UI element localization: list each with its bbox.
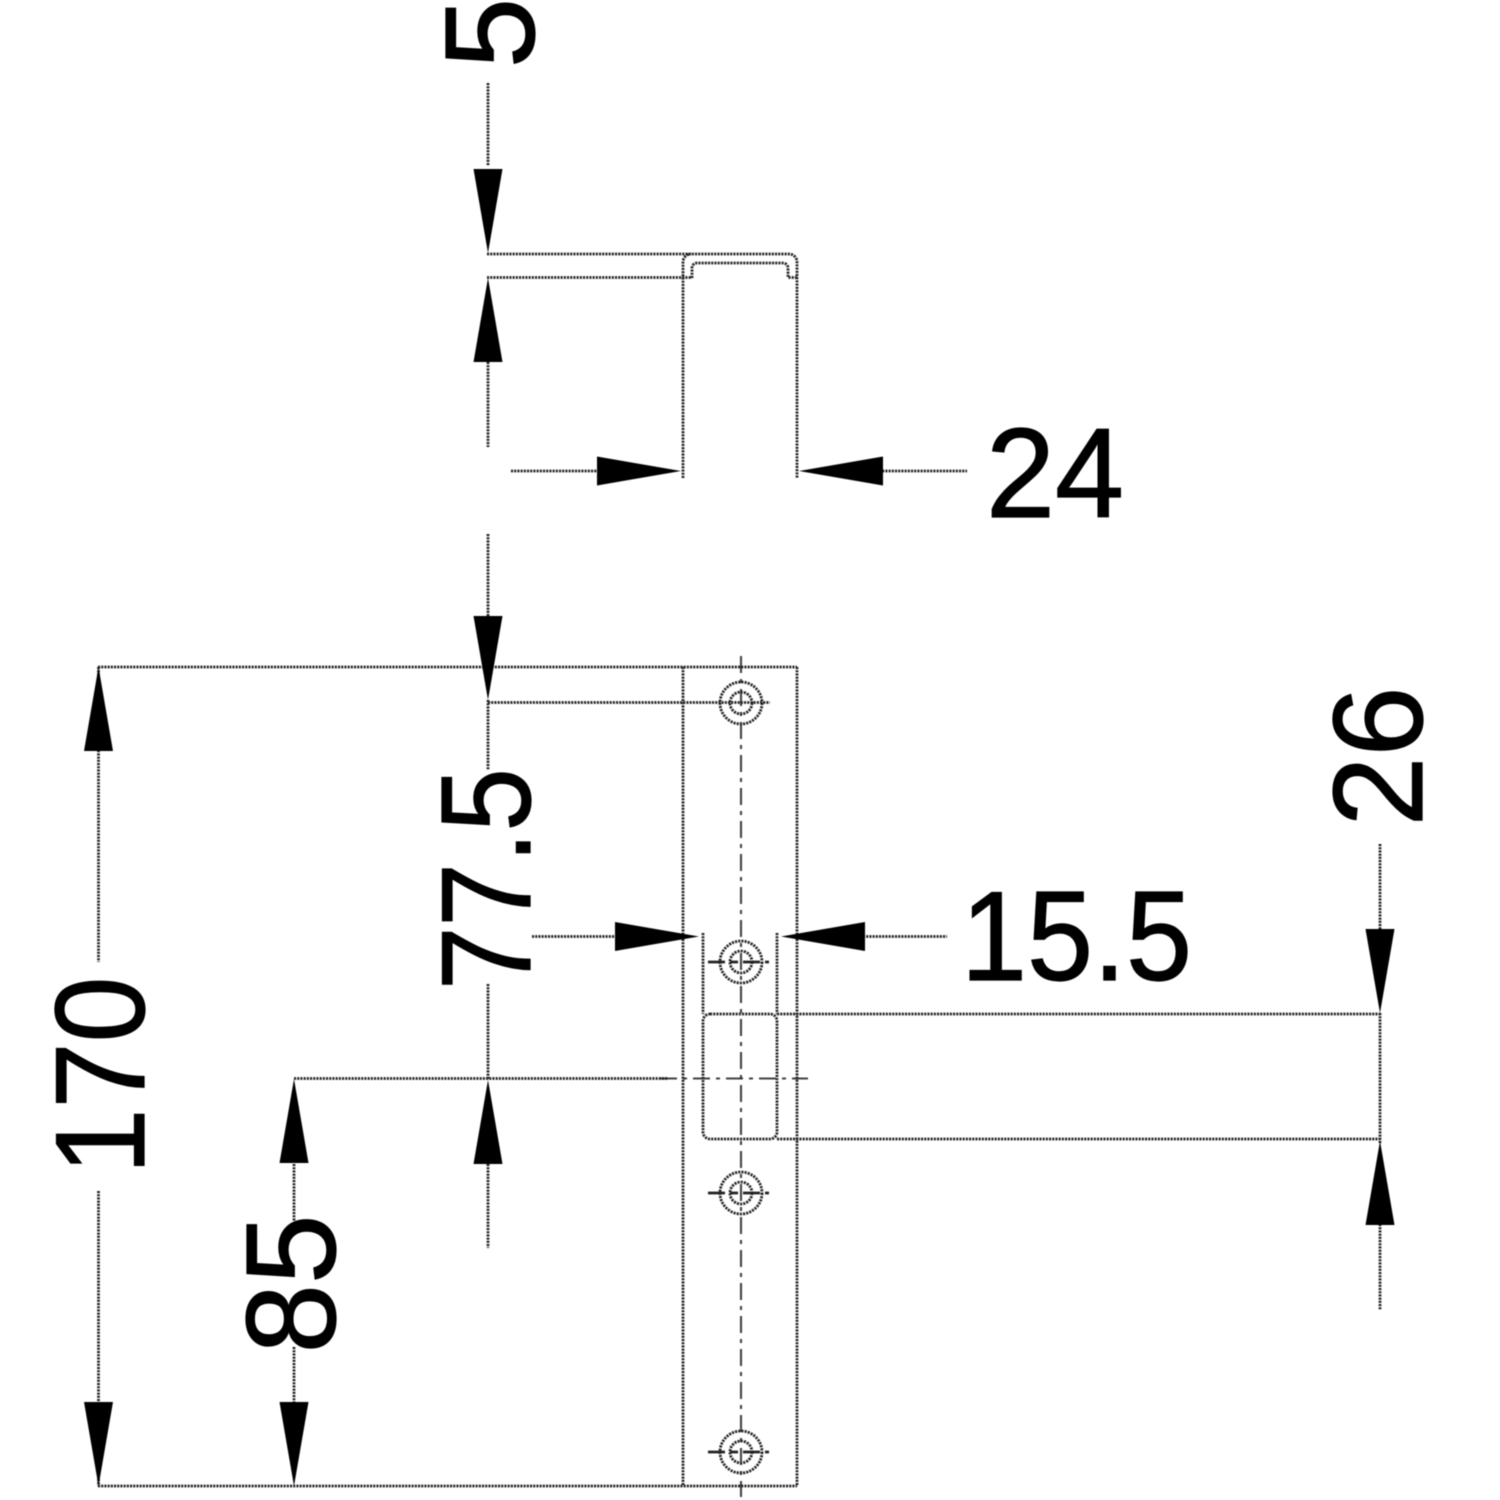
arm bottom line <box>777 1138 1380 1141</box>
15.5 extension lines <box>703 933 777 1014</box>
plate right edge <box>796 667 799 1486</box>
plate left edge <box>682 667 685 1486</box>
hole1 outer circle <box>720 682 762 724</box>
svg-text:85: 85 <box>220 1215 362 1354</box>
hole3 inner circle <box>730 1182 752 1204</box>
top profile view outer outline <box>487 254 797 478</box>
hole2 tick <box>708 961 769 964</box>
24 dimension line <box>511 470 967 473</box>
arrowheads <box>474 169 503 253</box>
hole4 inner circle <box>730 1441 752 1463</box>
arm top line <box>777 1013 1380 1016</box>
svg-text:77.5: 77.5 <box>415 768 557 990</box>
plate top edge + extension <box>98 666 797 669</box>
svg-text:26: 26 <box>1307 687 1449 827</box>
85 / 77.5 extension line at arm centerline <box>294 1077 668 1080</box>
hole2 inner circle <box>730 951 752 973</box>
hole4 outer circle <box>720 1431 762 1473</box>
hole4 tick <box>708 1451 769 1454</box>
hole2 outer circle <box>720 941 762 983</box>
svg-text:15.5: 15.5 <box>961 865 1192 1007</box>
hole3 tick <box>708 1192 769 1195</box>
hole1 inner circle <box>730 692 752 714</box>
26 dimension line + arm end edge <box>1379 844 1382 1310</box>
vertical centerline through holes <box>740 656 742 1497</box>
170 dimension line <box>97 667 100 1486</box>
svg-text:5: 5 <box>419 0 561 68</box>
top profile view inner lip <box>692 263 797 278</box>
15.5 dimension line <box>532 935 947 938</box>
extension line for 5 (lower) <box>487 276 692 279</box>
svg-text:24: 24 <box>986 402 1124 544</box>
arm horizontal centerline <box>660 1077 808 1079</box>
svg-text:170: 170 <box>29 977 171 1175</box>
5 / 77.5 dimension vertical line chain <box>487 83 490 1248</box>
85 dimension line <box>293 1164 296 1403</box>
hole1 extension line <box>488 701 770 704</box>
hole3 outer circle <box>720 1172 762 1214</box>
plate bottom edge + extension <box>98 1485 797 1488</box>
slot tab rounded rect <box>703 1014 777 1139</box>
